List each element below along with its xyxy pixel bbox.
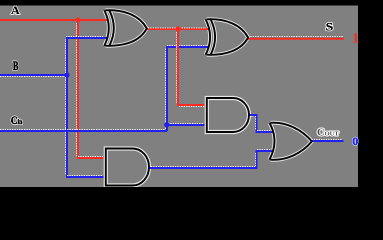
wire: S output	[247, 38, 344, 40]
wire dash: Cin to AND1 above	[168, 123, 204, 125]
wire dash: XOR1 out	[148, 27, 206, 29]
wire dash: AND1 out vertical	[255, 116, 257, 130]
gate: AND2	[106, 149, 149, 186]
black frame right	[358, 0, 383, 200]
wire dash: B below	[0, 76, 65, 78]
wire: input B horizontal	[0, 74, 67, 76]
wire dash: Cin to XOR2 above	[167, 45, 207, 47]
wire: B branch down to AND2	[67, 75, 104, 177]
wire dash: B to AND2 above	[67, 175, 103, 177]
gate glow OR	[270, 123, 312, 160]
gate glow AND1	[207, 98, 249, 132]
wire dash: B down vertical	[65, 77, 67, 175]
label S	[326, 20, 334, 34]
label B	[13, 59, 18, 73]
wire dash: AND2 out vertical	[255, 153, 257, 166]
node: junction on B	[64, 72, 69, 77]
wire dash: Cin above	[0, 129, 165, 131]
gate glow XOR2	[206, 19, 249, 55]
wire dash: A branch horizontal	[78, 156, 103, 158]
wire dash: branch vertical	[176, 32, 178, 103]
wire dash: B up vertical	[65, 39, 67, 73]
wire: branch down to AND1	[178, 29, 205, 105]
wire dash: AND2 out above	[151, 166, 255, 168]
svg-text:1: 1	[352, 32, 359, 47]
svg-text:B: B	[13, 59, 18, 73]
node: junction on Cin branch	[164, 122, 169, 127]
wire dash: branch to AND1 below	[179, 106, 204, 108]
wire: AND2 output to OR bottom input	[150, 151, 274, 168]
gate: XOR2 (xor1 xor Cin)	[206, 19, 249, 55]
wire: input Cin horizontal	[0, 130, 167, 132]
gate glow XOR1	[104, 10, 147, 46]
wire dash: AND1 out below	[249, 116, 254, 118]
wire: A branch vertical down to AND2	[78, 20, 104, 158]
wire dash: S above	[248, 36, 343, 38]
gate: AND1	[207, 98, 249, 132]
wire: AND1 output to OR top input	[249, 115, 274, 132]
wire dash: OR bottom input above	[257, 149, 271, 151]
wire: Cin branch to AND1	[167, 124, 205, 126]
wire dash: A branch vertical	[76, 23, 78, 156]
wire: Cout output	[311, 140, 344, 142]
svg-text:A: A	[11, 3, 20, 17]
wire: B branch up to XOR1	[67, 38, 108, 75]
label Cin	[11, 114, 23, 127]
node: junction on XOR1 output	[175, 26, 180, 31]
wire: Cin vertical up to XOR2	[167, 47, 209, 131]
svg-text:0: 0	[352, 134, 358, 148]
wire dash: Cout above	[312, 139, 343, 141]
wire dash: B to XOR1 above	[66, 36, 104, 38]
gate glow AND2	[106, 149, 149, 186]
wire: XOR1 output to XOR2	[147, 28, 209, 30]
wire dash: Cin vertical	[165, 48, 167, 129]
node: junction on A	[76, 17, 81, 22]
wire dash: OR top input above	[257, 130, 271, 132]
gate: OR	[270, 123, 312, 160]
wire: input A horizontal	[0, 19, 108, 21]
gray canvas background	[0, 5, 358, 188]
svg-text:S: S	[326, 20, 334, 34]
gate: XOR1 (A xor B)	[104, 10, 147, 46]
black frame top	[0, 0, 383, 6]
black frame bottom	[0, 187, 383, 200]
